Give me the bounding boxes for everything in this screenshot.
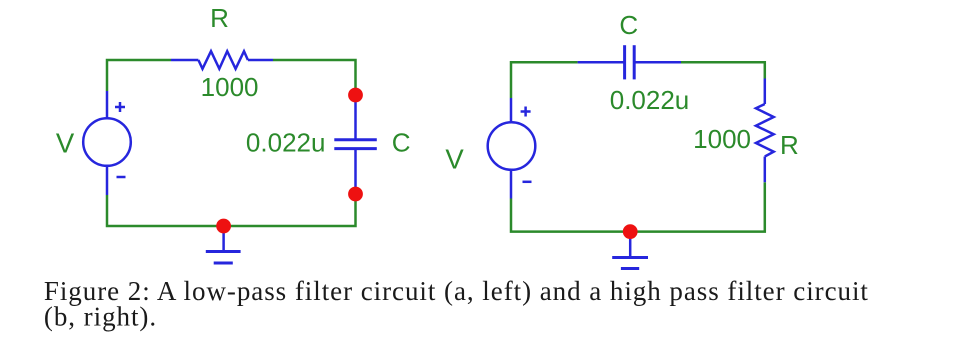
- svg-text:(b, right).: (b, right).: [44, 302, 157, 332]
- svg-text:R: R: [210, 3, 229, 33]
- svg-text:C: C: [392, 128, 411, 158]
- svg-text:R: R: [780, 130, 799, 160]
- svg-text:C: C: [619, 10, 638, 40]
- svg-text:1000: 1000: [201, 72, 259, 102]
- svg-text:V: V: [56, 127, 75, 158]
- svg-text:1000: 1000: [693, 124, 751, 154]
- svg-text:Figure 2: A low-pass filter ci: Figure 2: A low-pass filter circuit (a, …: [44, 276, 869, 306]
- svg-text:V: V: [445, 144, 464, 175]
- svg-text:0.022u: 0.022u: [246, 128, 326, 158]
- svg-text:0.022u: 0.022u: [610, 85, 690, 115]
